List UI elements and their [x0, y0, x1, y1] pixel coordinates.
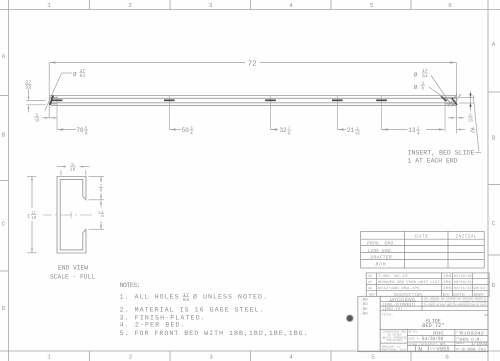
svg-text:8: 8 [85, 131, 88, 136]
svg-text:01/10/14: 01/10/14 [454, 274, 472, 279]
svg-text:16: 16 [31, 216, 36, 221]
svg-text:INSERT, BED SLIDE: INSERT, BED SLIDE [408, 150, 475, 157]
svg-text:WC12:ADD 2BA,2PK: WC12:ADD 2BA,2PK [378, 286, 421, 291]
dim 13 1/4 [382, 128, 446, 130]
svg-text:02/11/11: 02/11/11 [454, 286, 472, 291]
dim text 32 7/8 [280, 126, 292, 136]
svg-text:7-06: WC-15: 7-06: WC-15 [378, 274, 408, 279]
svg-text:64: 64 [183, 297, 189, 303]
svg-text:2. MATERIAL IS 16 GAGE STEEL.: 2. MATERIAL IS 16 GAGE STEEL. [120, 306, 264, 313]
svg-text:64: 64 [422, 73, 428, 79]
svg-text:32: 32 [280, 127, 287, 135]
svg-text:4: 4 [473, 130, 475, 135]
side view: bed slide channel bar [49, 96, 456, 106]
svg-text:CO: CO [481, 342, 488, 347]
hole centerlines (extension lines below bar) [57, 96, 445, 132]
dr by / date / scale cells [409, 330, 439, 350]
svg-text:DATE: DATE [415, 233, 428, 239]
svg-text:Ø: Ø [73, 71, 77, 78]
approval table [361, 231, 485, 268]
svg-text:6: 6 [445, 354, 449, 361]
hole right end dark slots [441, 96, 446, 101]
dim 32 7/8 [271, 128, 279, 130]
right end hatch strokes [448, 94, 461, 107]
svg-text:TO OTHERS WITHOUT WRITTEN AUTH: TO OTHERS WITHOUT WRITTEN AUTHORIZATION … [424, 304, 487, 307]
svg-text:27: 27 [25, 80, 32, 86]
svg-text:B: B [492, 135, 496, 142]
svg-text:SCALE (ADJUSTED):: SCALE (ADJUSTED): [409, 342, 439, 346]
svg-text:32: 32 [25, 85, 32, 91]
note 1 fraction 17/64 [183, 292, 189, 303]
svg-text:B: B [2, 132, 6, 139]
svg-text:70: 70 [77, 127, 84, 135]
svg-text:INITIAL: INITIAL [456, 233, 477, 239]
dim 27/32 left [26, 89, 45, 112]
svg-text:A3: A3 [368, 274, 372, 279]
title block outer and rows [380, 296, 488, 351]
svg-text:WT:: WT: [456, 348, 461, 351]
svg-text:C: C [2, 221, 6, 228]
svg-text:A: A [492, 41, 496, 48]
svg-text:D: D [492, 282, 496, 289]
leader dia 17/64 right hole [431, 76, 451, 104]
svg-text:Ø: Ø [414, 84, 418, 91]
title block bottom section dividers [380, 329, 488, 351]
svg-text:16: 16 [35, 118, 40, 123]
right column cells [456, 331, 465, 351]
svg-text:AG: AG [368, 286, 372, 291]
holes shown as dark dashes [52, 99, 387, 101]
tolerance block tiny text [382, 331, 407, 342]
svg-text:-BD: -BD [360, 302, 368, 307]
svg-text:1A: 1A [484, 313, 489, 318]
svg-text:LEVEL-2(FOREST): LEVEL-2(FOREST) [383, 302, 416, 307]
svg-text:BED 72": BED 72" [422, 323, 444, 329]
svg-text:Ø UNLESS NOTED.: Ø UNLESS NOTED. [193, 294, 267, 301]
dim text 50 3/4 [182, 126, 194, 136]
svg-text:SPECIFIED: SPECIFIED [387, 339, 402, 342]
dim text 21 1/16 [347, 126, 360, 136]
svg-text:16: 16 [70, 167, 76, 173]
svg-text:4: 4 [289, 354, 293, 361]
svg-text:2: 2 [128, 2, 132, 9]
svg-text:5: 5 [371, 354, 375, 361]
end view C-channel profile [57, 177, 86, 254]
end view left dim 1 11/16 [27, 176, 37, 253]
svg-text:N: N [418, 346, 422, 353]
dim 70 5/8 [57, 128, 76, 130]
svg-text:DR BY:: DR BY: [409, 330, 419, 333]
title SLIDE BED 72 [422, 318, 444, 329]
svg-text:96% O.N.: 96% O.N. [460, 337, 482, 342]
dim text 13 1/4 [409, 126, 421, 136]
svg-text:DATE #:: DATE #: [409, 338, 421, 341]
svg-text:4: 4 [190, 131, 193, 136]
svg-text:D: D [2, 305, 6, 312]
svg-text:SCALE - FULL: SCALE - FULL [50, 274, 95, 281]
right end vertical dim 15/16 [459, 91, 474, 112]
zone tick bottom [89, 351, 91, 361]
svg-text:A: A [2, 53, 6, 60]
svg-text:C: C [492, 220, 496, 227]
svg-text:TITLE:: TITLE: [382, 313, 394, 317]
svg-text:BOM: BOM [376, 261, 386, 267]
svg-text:1: 1 [101, 210, 103, 215]
svg-text:72: 72 [248, 60, 257, 69]
svg-text:16: 16 [355, 131, 360, 136]
proprietary note 3 tiny lines [424, 298, 487, 307]
leader to insert note [473, 95, 479, 151]
end view top dim 9/16 [57, 166, 90, 176]
svg-text:PROD. ENG.: PROD. ENG. [367, 241, 396, 247]
svg-text:21: 21 [347, 127, 354, 135]
notes block [120, 282, 308, 337]
svg-text:1: 1 [47, 2, 51, 9]
level rows [383, 302, 416, 312]
svg-text:4: 4 [417, 131, 420, 136]
svg-text:3: 3 [209, 354, 213, 361]
right end dim 2 1/4 [457, 129, 466, 131]
svg-text:1 AT EACH END: 1 AT EACH END [408, 157, 458, 164]
zone tick left [0, 95, 9, 97]
svg-text:V955: V955 [437, 347, 450, 353]
end view right dim 1 1/16 opening [89, 200, 105, 230]
end view right dim 7/8 lip [89, 177, 105, 200]
dim 3/16 left end chamfer [42, 117, 57, 119]
svg-text:JRS: JRS [443, 286, 452, 291]
svg-text:8: 8 [288, 131, 291, 136]
punch hole [346, 315, 353, 322]
svg-text:-BE: -BE [360, 307, 368, 312]
svg-text:1. ALL HOLES: 1. ALL HOLES [120, 294, 179, 301]
leader dia 17/64 left hole [45, 73, 72, 111]
svg-text:16: 16 [101, 214, 104, 219]
svg-text:17: 17 [183, 292, 189, 298]
dimension 72 overall [49, 61, 456, 133]
leader dia 3/8 right hole [429, 87, 456, 106]
svg-text:8: 8 [100, 189, 103, 194]
end view centerline [43, 212, 92, 219]
svg-text:13: 13 [409, 127, 416, 135]
dim 21 1/16 [337, 128, 346, 130]
svg-text:Ø: Ø [414, 72, 418, 79]
svg-text:4. 2-PER BED.: 4. 2-PER BED. [120, 322, 185, 329]
svg-text:SHEET: SHEET [456, 342, 465, 345]
svg-text:2: 2 [129, 354, 133, 361]
dash number list column [358, 296, 380, 351]
svg-text:50: 50 [182, 127, 189, 135]
svg-text:JRS: JRS [443, 280, 452, 285]
svg-text:JRS: JRS [443, 274, 452, 279]
svg-text:FRACTIONAL: ±1/8: FRACTIONAL: ±1/8 [382, 347, 406, 351]
zone tick right [488, 91, 500, 93]
svg-text:LINE ENG.: LINE ENG. [368, 248, 394, 254]
svg-text:END VIEW: END VIEW [58, 265, 88, 272]
svg-text:8: 8 [422, 87, 425, 92]
revision table [366, 273, 489, 296]
svg-text:1: 1 [47, 354, 51, 361]
svg-text:AF: AF [368, 280, 372, 285]
svg-text:3: 3 [209, 2, 213, 9]
dim text 70 5/8 [77, 126, 89, 136]
svg-text:04/30/98: 04/30/98 [422, 336, 444, 342]
svg-text:5. FOR FRONT BED WITH 1BB,1BD,: 5. FOR FRONT BED WITH 1BB,1BD,1BE,1BG. [120, 330, 308, 337]
svg-text:5: 5 [370, 2, 374, 9]
sheet border frame [0, 9, 500, 11]
svg-text:REMOVED 2BD FROM UNIT LIST: REMOVED 2BD FROM UNIT LIST [378, 280, 440, 285]
svg-text:P/N:: P/N: [430, 346, 437, 350]
svg-text:WC12: WC12 [474, 286, 486, 291]
right end dim line at y 117.8 [448, 117, 464, 119]
svg-text:0169242: 0169242 [460, 331, 484, 336]
svg-text:09/09/11: 09/09/11 [454, 280, 472, 285]
svg-text:DRAFTER: DRAFTER [371, 255, 392, 261]
dim 50 3/4 [169, 128, 181, 130]
svg-text:-BG: -BG [360, 311, 368, 316]
svg-text:16: 16 [468, 118, 473, 123]
svg-text:NOTES:: NOTES: [120, 282, 141, 289]
svg-text:64: 64 [80, 73, 86, 79]
hole left end dark slot [50, 95, 53, 105]
svg-text:6: 6 [448, 2, 452, 9]
svg-text:3. FINISH-PLATED.: 3. FINISH-PLATED. [120, 314, 205, 321]
svg-text:4: 4 [289, 2, 293, 9]
end view caption [50, 265, 95, 281]
svg-text:LEVEL-(5): LEVEL-(5) [383, 307, 403, 312]
insert note text [408, 150, 475, 165]
svg-text:1: 1 [27, 213, 30, 219]
svg-text:-BB: -BB [360, 298, 368, 303]
zone tick top [89, 0, 91, 10]
